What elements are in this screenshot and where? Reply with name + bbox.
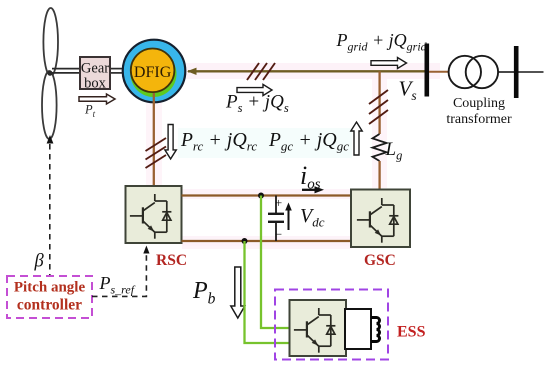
three-phase slashes rotor [146, 138, 167, 168]
DC bus top wire [182, 194, 352, 196]
converter RSC box [126, 186, 182, 243]
svg-text:Coupling: Coupling [453, 96, 505, 111]
arrow Vdc [288, 207, 290, 230]
arrow ios [302, 189, 316, 191]
cyan tint band behind converter power labels [178, 128, 352, 158]
pitch angle controller box [7, 276, 92, 318]
bus bar right [514, 46, 519, 98]
svg-text:Gear: Gear [81, 61, 109, 77]
svg-text:controller: controller [17, 297, 82, 314]
arrowhead into RSC [143, 246, 149, 254]
three-phase slashes grid side [369, 90, 388, 124]
transformer circle 1 [449, 56, 481, 88]
DFIG green disc [131, 51, 177, 97]
grid stub wire [519, 71, 544, 73]
svg-text:DFIG: DFIG [134, 64, 172, 81]
ESS inductor coil [371, 318, 380, 342]
wind turbine blade upper [43, 8, 58, 76]
grid-side vertical wire upper [378, 71, 380, 134]
DC bus bottom wire [182, 240, 352, 242]
ESS dashed box [275, 290, 388, 360]
transformer circle 2 [466, 56, 498, 88]
capacitor C lead bottom [275, 222, 277, 241]
arrow Prc [165, 125, 176, 159]
capacitor C lead top [275, 196, 277, 214]
wind turbine blade lower [42, 71, 57, 139]
svg-text:−: − [275, 227, 282, 242]
svg-text:transformer: transformer [446, 112, 512, 127]
faint pink bands along vertical wires [146, 96, 162, 186]
arrow Ps [237, 84, 272, 95]
stator wire arrowhead at DFIG [187, 68, 197, 75]
svg-text:Prc + jQrc: Prc + jQrc [180, 129, 257, 154]
junction node top bus [258, 193, 264, 199]
svg-text:β: β [34, 252, 45, 272]
svg-text:GSC: GSC [364, 252, 396, 269]
junction node bottom bus [242, 238, 248, 244]
arrow Pgc [351, 122, 362, 155]
stator wire DFIG to bus [188, 70, 427, 72]
turbine hub [47, 71, 52, 76]
wire transformer to right bus [498, 71, 514, 73]
arrowhead at blade tip [47, 135, 54, 144]
shaft turbine to gearbox [52, 69, 80, 73]
svg-text:Pitch angle: Pitch angle [14, 280, 86, 296]
gear box [80, 57, 110, 89]
faint pink band along stator wire [150, 63, 440, 79]
svg-text:Ps + jQs: Ps + jQs [225, 92, 289, 116]
faint pink band along dc bus [182, 189, 352, 199]
three-phase slashes stator [247, 63, 275, 80]
svg-text:box: box [84, 76, 107, 92]
ESS inductor housing [345, 309, 371, 349]
grid-side vertical wire lower [378, 161, 380, 190]
DFIG outer circle [123, 40, 186, 103]
green wire B from bottom bus to ESS [245, 241, 291, 343]
green wire A from top bus to ESS [261, 196, 290, 329]
bus bar left [424, 44, 429, 97]
RSC IGBT symbol [130, 194, 172, 239]
rotor wire DFIG to RSC [153, 93, 155, 186]
DFIG rotor circle [131, 49, 175, 93]
arrow Pt [79, 94, 115, 104]
svg-text:+: + [275, 195, 282, 210]
dashed beta line [49, 144, 51, 276]
shaft gearbox to DFIG [110, 69, 124, 73]
wire bus to transformer [429, 71, 449, 73]
capacitor plates [268, 213, 284, 215]
GSC IGBT symbol [357, 198, 399, 243]
converter GSC box [351, 190, 410, 248]
svg-text:RSC: RSC [156, 252, 187, 269]
arrow Pb [231, 267, 245, 318]
arrow Pgrid [371, 58, 407, 69]
converter ESS box [290, 300, 347, 356]
inductor Lg [373, 134, 387, 161]
dashed Ps_ref wire [92, 251, 146, 296]
ESS IGBT symbol [294, 308, 336, 353]
svg-text:ESS: ESS [397, 324, 426, 341]
